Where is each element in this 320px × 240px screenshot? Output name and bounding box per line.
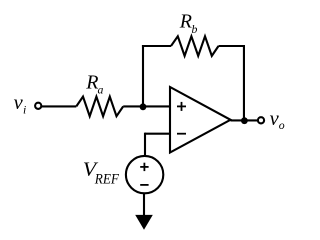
wire op-amp - input <box>145 133 170 135</box>
wire down to Vref source <box>144 133 146 156</box>
junction node output (dot) <box>241 117 248 124</box>
resistor Rb <box>171 36 219 56</box>
ground <box>135 215 153 230</box>
wire node A up to feedback <box>142 45 144 107</box>
node vo terminal (open circle) <box>258 117 264 123</box>
wire feedback down to output node <box>243 45 245 121</box>
svg-text:REF: REF <box>94 172 119 188</box>
wire vi to Ra <box>42 105 77 107</box>
node vi terminal (open circle) <box>35 103 41 109</box>
wire Ra to op-amp + input <box>123 105 170 107</box>
wire Vref to ground <box>143 193 145 217</box>
resistor Ra <box>76 97 123 117</box>
source VREF (circle) <box>126 156 163 193</box>
op-amp U1 <box>170 87 231 153</box>
svg-text:a: a <box>98 83 104 97</box>
VREF + mark <box>140 166 148 168</box>
svg-text:R: R <box>179 10 192 32</box>
wire Rb to feedback top-right <box>219 45 246 47</box>
op-amp + pin mark <box>177 105 186 107</box>
svg-text:i: i <box>23 103 26 117</box>
svg-text:R: R <box>85 72 98 94</box>
wire feedback top-left to Rb <box>142 45 171 47</box>
junction node A (dot) <box>140 103 147 110</box>
wire op-amp output <box>231 119 258 121</box>
svg-text:o: o <box>279 118 285 132</box>
svg-text:b: b <box>192 22 198 36</box>
op-amp - pin mark <box>177 133 186 135</box>
VREF - mark <box>140 184 148 186</box>
